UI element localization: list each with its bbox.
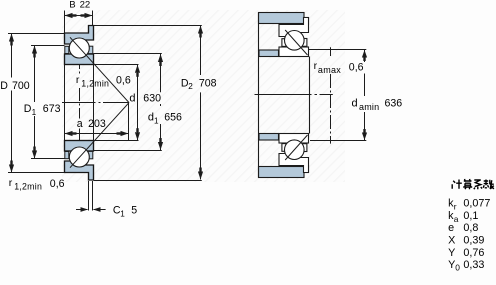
svg-text:636: 636 xyxy=(385,98,403,110)
dimension d1 656 xyxy=(94,54,162,151)
svg-text:X: X xyxy=(448,235,455,247)
svg-text:amax: amax xyxy=(318,65,341,75)
ball bottom xyxy=(69,147,89,167)
svg-text:630: 630 xyxy=(143,92,161,104)
cage right top xyxy=(88,46,93,53)
svg-text:203: 203 xyxy=(88,118,106,130)
dimension a 203 xyxy=(65,103,129,141)
bottom flange box xyxy=(304,166,309,173)
header 计算系数 (drawn strokes) xyxy=(452,179,494,189)
contact line bottom right drawing xyxy=(285,135,307,160)
svg-text:0,6: 0,6 xyxy=(50,178,65,190)
inner ring bottom xyxy=(65,141,94,152)
ball bottom xyxy=(285,140,305,160)
svg-text:708: 708 xyxy=(199,77,217,89)
contact angle line top xyxy=(70,37,129,102)
contact line top right drawing xyxy=(285,30,307,55)
svg-text:a: a xyxy=(77,118,83,130)
shaft shoulder top xyxy=(259,50,279,57)
inner ring bottom white xyxy=(279,134,309,144)
svg-text:a: a xyxy=(454,214,459,224)
svg-text:d: d xyxy=(352,98,358,110)
计 xyxy=(452,180,462,189)
svg-text:r: r xyxy=(76,74,80,86)
svg-text:5: 5 xyxy=(131,205,137,217)
dimension D 700 xyxy=(8,34,65,173)
svg-text:amin: amin xyxy=(359,102,379,112)
svg-text:B: B xyxy=(69,0,75,11)
svg-text:0,33: 0,33 xyxy=(463,259,484,271)
cage left bottom xyxy=(65,152,69,159)
svg-text:1: 1 xyxy=(120,209,125,218)
outer ring bottom white xyxy=(279,154,309,173)
dimension B xyxy=(65,11,93,34)
center line vertical xyxy=(79,56,81,148)
shaft axis center line xyxy=(255,94,333,96)
cage left top xyxy=(282,39,286,47)
svg-text:0,76: 0,76 xyxy=(463,247,484,259)
shaft right end line xyxy=(309,57,311,134)
mounted bearing top section xyxy=(279,18,309,57)
inner ring top xyxy=(65,54,94,65)
outer ring top xyxy=(65,26,94,45)
inner ring top white xyxy=(279,47,309,57)
dimension C1 5 flange width xyxy=(76,181,106,211)
svg-text:0,6: 0,6 xyxy=(116,74,131,86)
cage left top xyxy=(65,46,69,53)
dimension D1 673 xyxy=(31,46,65,159)
svg-text:Y: Y xyxy=(448,247,455,259)
svg-text:1: 1 xyxy=(32,108,37,117)
axis center line horizontal xyxy=(62,102,129,104)
svg-text:0,6: 0,6 xyxy=(349,62,364,74)
svg-text:0,1: 0,1 xyxy=(463,210,478,222)
shaft shoulder bottom xyxy=(259,134,279,141)
系 xyxy=(474,180,482,189)
svg-text:2: 2 xyxy=(188,82,193,91)
svg-text:700: 700 xyxy=(12,80,30,92)
svg-text:22: 22 xyxy=(80,0,91,11)
svg-text:1,2min: 1,2min xyxy=(81,79,109,89)
ball top xyxy=(69,38,89,58)
svg-text:r: r xyxy=(454,202,457,212)
svg-text:r: r xyxy=(9,177,13,189)
cage right top xyxy=(302,39,307,47)
svg-text:1: 1 xyxy=(154,116,159,125)
dimension d 630 xyxy=(94,65,139,141)
housing bottom bar xyxy=(259,167,305,178)
cage left bottom xyxy=(282,144,286,152)
bore face line right xyxy=(93,65,95,141)
mounted bearing bottom section xyxy=(279,134,309,173)
svg-text:e: e xyxy=(448,222,454,234)
shaft left face line xyxy=(258,13,260,178)
svg-text:1,2min: 1,2min xyxy=(14,181,42,191)
svg-text:Y: Y xyxy=(448,259,455,271)
housing top bar xyxy=(259,13,305,24)
svg-text:D: D xyxy=(0,80,8,92)
bore face line left xyxy=(64,65,66,141)
cage right bottom xyxy=(88,151,93,158)
top flange box xyxy=(304,18,309,25)
svg-text:0: 0 xyxy=(455,263,460,273)
svg-text:d: d xyxy=(129,93,135,105)
dimension ra / da lines xyxy=(309,50,367,141)
svg-text:673: 673 xyxy=(43,103,61,115)
cage right bottom xyxy=(302,144,307,152)
svg-text:656: 656 xyxy=(164,112,182,124)
dimension D2 708 xyxy=(94,26,202,181)
数 xyxy=(483,180,494,190)
svg-text:D: D xyxy=(24,103,32,115)
算 xyxy=(463,179,472,189)
contact angle line bottom xyxy=(70,103,129,168)
svg-text:0,39: 0,39 xyxy=(463,235,484,247)
ball top xyxy=(285,31,305,51)
svg-text:0,077: 0,077 xyxy=(463,198,490,210)
outer ring top white xyxy=(279,18,309,37)
abutment diameter center line vertical xyxy=(330,47,332,143)
svg-text:0,8: 0,8 xyxy=(463,222,478,234)
outer ring bottom xyxy=(65,161,94,180)
